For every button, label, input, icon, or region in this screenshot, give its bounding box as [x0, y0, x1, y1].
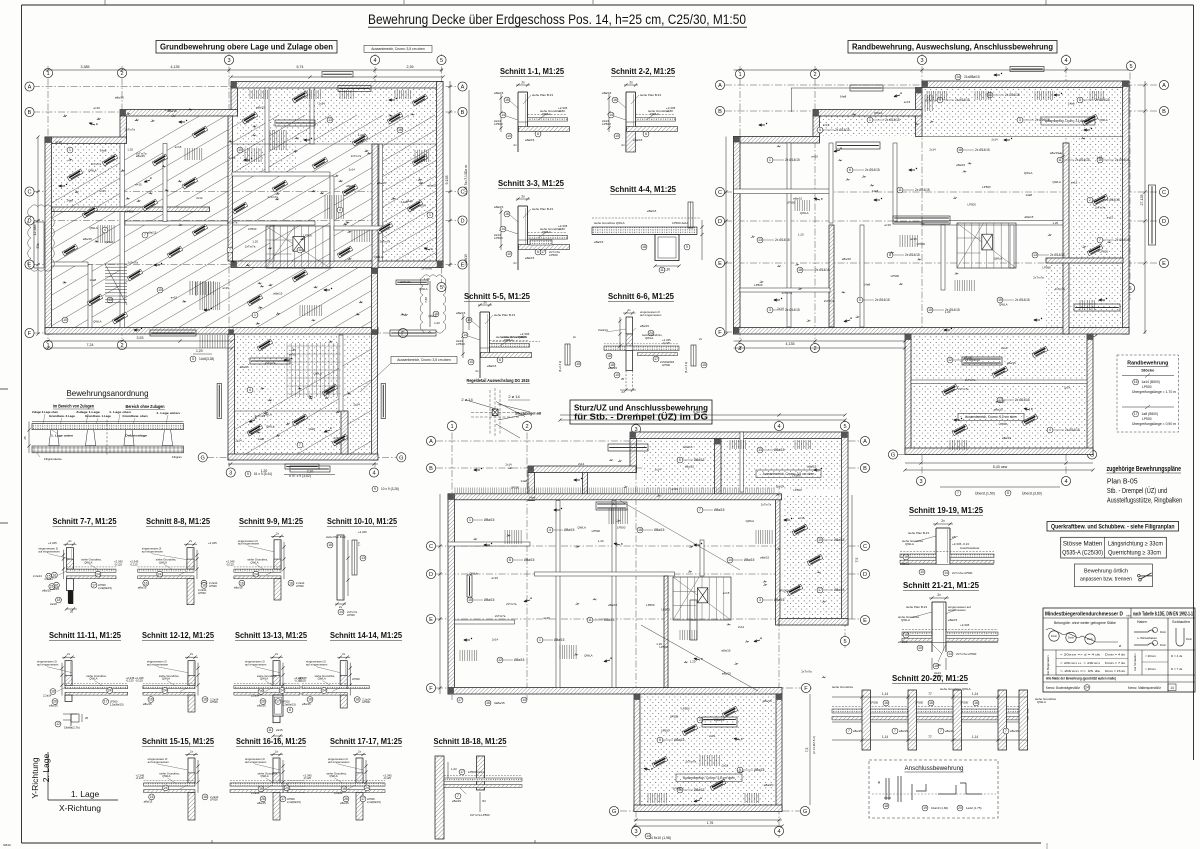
svg-text:auf eingemessen: auf eingemessen — [306, 663, 328, 667]
svg-text:B: B — [461, 110, 465, 116]
svg-text:(6 +0,5 d): (6 +0,5 d) — [558, 361, 562, 372]
svg-text:E: E — [718, 261, 722, 267]
svg-text:16: 16 — [929, 701, 933, 705]
svg-text:2x: 2x — [475, 369, 479, 373]
svg-text:-0,125: -0,125 — [303, 776, 311, 780]
svg-text:LP500: LP500 — [1142, 417, 1152, 421]
svg-text:Q535-A (C25/30): Q535-A (C25/30) — [1062, 549, 1103, 556]
svg-text:2xTm7a: 2xTm7a — [351, 154, 362, 158]
svg-text:-0,125: -0,125 — [383, 776, 391, 780]
svg-text:2xTm7a: 2xTm7a — [421, 266, 432, 270]
svg-text:1,14: 1,14 — [882, 735, 888, 739]
svg-text:1,14: 1,14 — [972, 692, 978, 696]
svg-text:2x14: 2x14 — [492, 638, 499, 642]
svg-text:10: 10 — [615, 134, 619, 138]
svg-text:Ø8a/15: Ø8a/15 — [604, 618, 615, 622]
svg-text:16: 16 — [884, 701, 888, 705]
svg-text:13: 13 — [361, 556, 365, 560]
svg-text:D: D — [1162, 219, 1166, 225]
svg-text:-0,125: -0,125 — [126, 679, 134, 683]
svg-text:ø: ø — [1119, 644, 1121, 648]
section drawing Schnitt 16-16 — [273, 758, 280, 783]
svg-text:14ø8: 14ø8 — [872, 189, 879, 193]
svg-text:7: 7 — [894, 729, 896, 733]
TR lower wing bottom wall — [905, 448, 1093, 455]
svg-text:7: 7 — [957, 491, 959, 495]
svg-text:Plan B-05: Plan B-05 — [1107, 479, 1138, 486]
svg-text:13: 13 — [328, 118, 332, 122]
svg-text:bei Biegehaken: bei Biegehaken — [1046, 655, 1050, 675]
axis letters left TL — [25, 82, 34, 91]
BC arrow marks — [483, 543, 492, 547]
svg-text:LP500: LP500 — [362, 700, 370, 704]
TR interior walls — [787, 143, 791, 327]
svg-text:2,2ø14: 2,2ø14 — [334, 791, 343, 795]
BC circled annotations — [467, 517, 473, 523]
svg-text:14: 14 — [1170, 686, 1174, 690]
svg-text:77: 77 — [928, 692, 932, 696]
svg-text:1,14: 1,14 — [972, 735, 978, 739]
svg-text:14: 14 — [339, 610, 343, 614]
svg-text:ø8a/15: ø8a/15 — [640, 324, 649, 328]
TR main top wall — [734, 137, 820, 144]
svg-text:ø8a/15: ø8a/15 — [340, 801, 349, 805]
svg-text:2xTm7a: 2xTm7a — [125, 128, 136, 132]
svg-text:G: G — [803, 809, 807, 815]
svg-text:20: 20 — [958, 806, 962, 810]
BC Aussenbereich labels — [756, 470, 821, 478]
svg-text:1,20: 1,20 — [945, 310, 951, 314]
TR stair fan — [957, 223, 1016, 268]
svg-text:ø8a/15: ø8a/15 — [42, 589, 51, 593]
svg-text:> 20mm: > 20mm — [1145, 667, 1156, 671]
svg-text:3,385: 3,385 — [81, 65, 90, 69]
svg-text:10 x 9 (3,28): 10 x 9 (3,28) — [381, 487, 399, 491]
Schnitt 5-5 long slab lines — [493, 341, 541, 343]
axis letters right TL — [458, 82, 467, 91]
svg-text:a=15: a=15 — [229, 156, 236, 160]
svg-text:siehe Plan B.23: siehe Plan B.23 — [640, 93, 661, 97]
TR right wall — [1123, 81, 1130, 334]
svg-text:2: 2 — [120, 71, 123, 77]
svg-text:F: F — [28, 331, 32, 337]
axis circles top BC — [447, 421, 456, 430]
svg-text:(6 +0,5 d): (6 +0,5 d) — [684, 362, 688, 373]
note box Querkraftbew — [1047, 522, 1179, 532]
svg-text:ø8a/15: ø8a/15 — [807, 464, 816, 468]
axis circles bottom BC — [631, 826, 640, 835]
svg-text:2,2ø14: 2,2ø14 — [251, 791, 260, 795]
svg-text:Ø8a/15: Ø8a/15 — [744, 558, 755, 562]
svg-text:16: 16 — [486, 701, 490, 705]
svg-text:7: 7 — [229, 248, 231, 252]
svg-text:Betongüte: ohne weiter gebogen: Betongüte: ohne weiter gebogene Stäbe — [1054, 621, 1116, 625]
svg-text:LP500: LP500 — [347, 613, 355, 617]
tick marks TR plan — [968, 162, 972, 164]
svg-text:ø8a/15: ø8a/15 — [842, 257, 851, 261]
svg-text:Grundbew. 1.Lage: Grundbew. 1.Lage — [85, 414, 111, 418]
svg-text:16: 16 — [328, 543, 332, 547]
svg-text:a=15: a=15 — [93, 106, 100, 110]
svg-text:2ø16: 2ø16 — [50, 602, 57, 606]
TR step wall — [813, 110, 922, 117]
svg-text:LP500: LP500 — [592, 529, 601, 533]
svg-text:LP500: LP500 — [787, 200, 796, 204]
svg-text:18: 18 — [57, 598, 61, 602]
Schnitt 8-8 right circle — [201, 583, 207, 589]
svg-text:2x14: 2x14 — [354, 402, 361, 406]
svg-text:LP500: LP500 — [549, 253, 558, 257]
svg-text:Schnitt 10-10, M1:25: Schnitt 10-10, M1:25 — [327, 517, 397, 526]
section drawing Schnitt 5-5 — [456, 301, 532, 379]
svg-text:-0,125: -0,125 — [662, 341, 670, 345]
svg-text:16: 16 — [505, 98, 509, 102]
caption: Randbewehrung, Auswechslung, Anschlussbewehrung — [848, 41, 1057, 54]
svg-text:a=15: a=15 — [289, 352, 296, 356]
svg-text:D: D — [863, 572, 867, 578]
section drawing Schnitt 15-15 — [188, 758, 195, 783]
svg-text:siehe Grundriss QWLA: siehe Grundriss QWLA — [594, 221, 625, 225]
svg-text:ø8a/15: ø8a/15 — [594, 240, 604, 244]
svg-text:ø8a/15: ø8a/15 — [853, 729, 862, 733]
svg-text:2 ø 14: 2 ø 14 — [461, 397, 473, 402]
svg-text:LP500: LP500 — [915, 701, 924, 705]
svg-text:1,20: 1,20 — [127, 148, 133, 152]
svg-text:Regeldetail Auswechslung DG 19: Regeldetail Auswechslung DG 1915 — [467, 378, 531, 383]
svg-text:QWLA: QWLA — [1099, 118, 1108, 122]
svg-text:16: 16 — [298, 248, 302, 252]
TR lower wing left wall — [905, 334, 911, 452]
svg-text:5: 5 — [843, 639, 846, 645]
svg-text:C: C — [863, 544, 867, 550]
svg-text:14: 14 — [956, 75, 960, 79]
table Mindestbiegerollendurchmesser — [1043, 608, 1195, 692]
combs along TR wing top wall — [926, 91, 928, 100]
svg-text:16: 16 — [203, 795, 207, 799]
TL step wall b — [120, 110, 238, 117]
svg-text:QWLA: QWLA — [1024, 171, 1033, 175]
svg-text:12,385: 12,385 — [33, 225, 37, 236]
section drawing Schnitt 8-8 — [187, 548, 194, 569]
svg-text:E: E — [863, 618, 867, 624]
svg-text:Schnitt 9-9, M1:25: Schnitt 9-9, M1:25 — [239, 517, 304, 526]
svg-text:1,76: 1,76 — [707, 821, 714, 825]
svg-text:A: A — [28, 85, 32, 91]
svg-text:10: 10 — [63, 318, 67, 322]
svg-text:1,20: 1,20 — [690, 659, 696, 663]
svg-text:Übergreifungslänge = 1,70 m: Übergreifungslänge = 1,70 m — [1132, 390, 1176, 394]
svg-text:QWLA: QWLA — [577, 526, 586, 530]
svg-text:15: 15 — [576, 362, 580, 366]
TL lower wing left wall — [228, 334, 235, 460]
svg-text:2x14: 2x14 — [349, 168, 356, 172]
svg-text:24: 24 — [280, 689, 284, 693]
svg-text:2x: 2x — [190, 750, 194, 754]
svg-text:2 ø 14: 2 ø 14 — [508, 394, 520, 399]
svg-text:a=15: a=15 — [55, 140, 62, 144]
svg-text:LP500: LP500 — [681, 707, 690, 711]
svg-text:16: 16 — [974, 701, 978, 705]
svg-text:Übergreifungslänge = 0,90 m: Übergreifungslänge = 0,90 m — [1132, 422, 1176, 426]
svg-text:2x Ø14/15: 2x Ø14/15 — [1015, 398, 1030, 402]
svg-text:LP500: LP500 — [494, 122, 503, 126]
fold mark top — [104, 0, 106, 5]
svg-text:2xTm7a: 2xTm7a — [1055, 287, 1066, 291]
svg-text:QWLA: QWLA — [261, 774, 269, 778]
svg-text:13: 13 — [108, 298, 112, 302]
svg-text:2x Ø14/15: 2x Ø14/15 — [785, 308, 800, 312]
box Bewehrung oertlich anpassen with scissors — [1074, 564, 1152, 587]
svg-text:24: 24 — [158, 572, 162, 576]
dark junction blocks at wall crossings — [231, 82, 237, 88]
svg-text:10ø10 (1,60): 10ø10 (1,60) — [931, 806, 948, 810]
svg-text:1: 1 — [539, 638, 541, 642]
svg-text:QWLA: QWLA — [105, 240, 114, 244]
svg-text:2x14: 2x14 — [578, 462, 585, 466]
BC bottom wall — [448, 688, 782, 695]
svg-text:14ø8: 14ø8 — [840, 95, 847, 99]
svg-text:Schnitt 3-3, M1:25: Schnitt 3-3, M1:25 — [498, 179, 565, 188]
tiny circled marks bottom TL wing — [245, 471, 251, 477]
TL tiny circled bar marks — [67, 147, 73, 153]
svg-text:a=15: a=15 — [99, 189, 106, 193]
svg-text:Aussenbereich, Cnom= 3,5 cm ob: Aussenbereich, Cnom= 3,5 cm oben — [371, 47, 425, 51]
svg-text:ø8a/15: ø8a/15 — [494, 91, 504, 95]
svg-text:E: E — [1162, 261, 1166, 267]
svg-text:4: 4 — [339, 208, 341, 212]
svg-text:ø8a/15: ø8a/15 — [996, 400, 1005, 404]
svg-text:A: A — [461, 85, 465, 91]
Regeldetail diagram — [489, 390, 491, 434]
svg-text:14: 14 — [501, 227, 505, 231]
TL diagonal label blobs — [87, 294, 103, 306]
svg-text:2x14: 2x14 — [1001, 346, 1008, 350]
BC stair fan — [673, 577, 731, 620]
svg-text:LP500: LP500 — [1142, 385, 1152, 389]
svg-text:Ø8a/15: Ø8a/15 — [484, 598, 495, 602]
svg-text:33a: 33a — [36, 243, 40, 249]
svg-text:LP500: LP500 — [793, 488, 802, 492]
svg-text:9: 9 — [374, 487, 376, 491]
svg-text:5: 5 — [659, 738, 661, 742]
svg-text:LP500: LP500 — [1100, 249, 1109, 253]
svg-text:3: 3 — [919, 479, 922, 485]
svg-text:2,2ø14: 2,2ø14 — [43, 694, 52, 698]
svg-text:4: 4 — [372, 471, 375, 477]
svg-text:Aussenbereich, Cnom= 3,5 cm ob: Aussenbereich, Cnom= 3,5 cm oben — [683, 776, 735, 780]
svg-text:1: 1 — [46, 71, 49, 77]
svg-text:10: 10 — [818, 538, 822, 542]
svg-text:LP500: LP500 — [511, 485, 520, 489]
TL leader arrow marks — [88, 121, 98, 127]
svg-text:14ø8: 14ø8 — [90, 278, 97, 282]
Anschluss bar figures — [884, 776, 982, 802]
svg-text:(2 14 ØZ.8.2): (2 14 ØZ.8.2) — [812, 736, 816, 754]
svg-text:14: 14 — [522, 698, 526, 702]
svg-text:ø8a/15: ø8a/15 — [302, 702, 311, 706]
svg-text:QWLA: QWLA — [800, 211, 809, 215]
svg-text:LP500: LP500 — [964, 355, 973, 359]
svg-text:LP500: LP500 — [210, 798, 218, 802]
svg-text:2x: 2x — [339, 605, 343, 609]
svg-text:40: 40 — [877, 780, 881, 784]
svg-text:2xTm7a LP500: 2xTm7a LP500 — [952, 571, 973, 575]
BC wing left vertical — [715, 439, 722, 496]
svg-text:ø8a/15: ø8a/15 — [763, 699, 772, 703]
svg-text:2x: 2x — [629, 81, 633, 85]
TL top wall — [231, 82, 443, 89]
svg-text:16: 16 — [355, 698, 359, 702]
svg-text:2x: 2x — [521, 195, 525, 199]
svg-text:LP500: LP500 — [792, 474, 801, 478]
bottom frame ticks — [211, 840, 213, 843]
svg-text:-0,125: -0,125 — [135, 679, 143, 683]
svg-text:10: 10 — [238, 148, 242, 152]
svg-text:-0,125: -0,125 — [114, 562, 122, 566]
svg-text:siehe Grundriss QWLA: siehe Grundriss QWLA — [940, 687, 971, 691]
svg-text:1,23: 1,23 — [451, 767, 457, 771]
svg-text:2xTm7a: 2xTm7a — [136, 151, 147, 155]
BC lower wing bottom wall — [634, 805, 782, 812]
TL right wall — [437, 82, 444, 268]
svg-text:16: 16 — [53, 573, 57, 577]
svg-text:Ø8a/15: Ø8a/15 — [484, 518, 495, 522]
svg-text:ø8a/15: ø8a/15 — [945, 729, 954, 733]
svg-text:30: 30 — [937, 663, 941, 667]
svg-text:2x Ø14/15: 2x Ø14/15 — [835, 128, 850, 132]
axis letters left TR — [715, 80, 724, 89]
svg-text:ø8a/15: ø8a/15 — [294, 274, 303, 278]
TL left stair treads — [105, 263, 127, 265]
BC step vertical a — [630, 439, 637, 473]
svg-text:Schnitt 17-17, M1:25: Schnitt 17-17, M1:25 — [330, 737, 403, 746]
svg-text:Stösse Matten: Stösse Matten — [1063, 540, 1103, 547]
svg-text:2,10: 2,10 — [307, 470, 314, 474]
svg-text:F: F — [804, 686, 808, 692]
svg-text:< 20mm => d = 4 ds: < 20mm => d = 4 ds — [1060, 653, 1101, 657]
svg-text:QWLA: QWLA — [469, 572, 478, 576]
axis G circles TL wing — [198, 453, 207, 462]
TL strip divider wall — [372, 144, 378, 268]
scissors icon — [1137, 571, 1153, 581]
svg-text:A: A — [429, 439, 433, 445]
svg-text:2x: 2x — [275, 750, 279, 754]
svg-text:2xTm7a: 2xTm7a — [334, 436, 345, 440]
svg-text:siehe Plan B.23: siehe Plan B.23 — [532, 207, 553, 211]
svg-text:ø8a/15: ø8a/15 — [377, 181, 386, 185]
sheet frame — [22, 4, 1194, 6]
svg-text:10: 10 — [920, 570, 924, 574]
svg-text:2x: 2x — [937, 593, 941, 597]
svg-text:a=15: a=15 — [904, 100, 911, 104]
svg-text:4: 4 — [777, 829, 780, 835]
BC dimension lines — [560, 414, 845, 416]
svg-text:Dmin: Dmin — [1186, 637, 1193, 641]
svg-text:C: C — [429, 544, 433, 550]
section drawing Schnitt 7-7 — [66, 548, 73, 569]
svg-text:2x: 2x — [621, 390, 625, 394]
svg-text:ø8a/15: ø8a/15 — [793, 196, 802, 200]
svg-text:2xTm7a LP500: 2xTm7a LP500 — [956, 652, 977, 656]
svg-text:LP500: LP500 — [661, 728, 670, 732]
svg-text:Ø8a/15: Ø8a/15 — [674, 738, 685, 742]
svg-text:4,135: 4,135 — [786, 342, 795, 346]
svg-text:QWLA: QWLA — [89, 677, 97, 681]
svg-text:Anschlussbewehrung: Anschlussbewehrung — [905, 765, 964, 772]
svg-text:Überst.(1,50): Überst.(1,50) — [975, 492, 995, 496]
svg-text:15: 15 — [468, 598, 472, 602]
section drawing Schnitt 19-19 — [900, 519, 994, 576]
svg-text:Ø8a/15: Ø8a/15 — [714, 718, 725, 722]
svg-text:QWLA: QWLA — [329, 774, 337, 778]
TL lower wing right wall — [372, 268, 378, 460]
svg-text:Ø8a/15: Ø8a/15 — [754, 768, 765, 772]
svg-text:7,5: 7,5 — [855, 558, 859, 563]
svg-text:ø8a/15: ø8a/15 — [240, 365, 249, 369]
svg-text:13: 13 — [758, 448, 762, 452]
svg-text:auf eingemessen: auf eingemessen — [37, 663, 59, 667]
svg-text:14ø8: 14ø8 — [258, 437, 265, 441]
svg-text:Schnitt 1-1, M1:25: Schnitt 1-1, M1:25 — [500, 67, 565, 76]
TL lower wing bottom wall — [228, 454, 378, 460]
svg-text:16: 16 — [202, 584, 206, 588]
svg-text:1,20: 1,20 — [252, 239, 258, 243]
svg-text:18: 18 — [884, 804, 888, 808]
Schnitt 14-14 right band — [347, 686, 369, 689]
Schnitt 11-11 step detail below — [63, 713, 77, 715]
BC main top wall — [448, 494, 782, 500]
svg-text:2,2ø(8a/15): 2,2ø(8a/15) — [98, 586, 112, 590]
svg-text:+2,345: +2,345 — [358, 530, 367, 534]
TL wing mesh comb — [286, 343, 288, 397]
svg-text:4: 4 — [549, 528, 551, 532]
svg-text:min: min — [1126, 614, 1131, 618]
svg-text:Dmin = 7 ds: Dmin = 7 ds — [1105, 661, 1126, 665]
svg-text:16: 16 — [51, 690, 55, 694]
svg-text:D = 7 ds: D = 7 ds — [1171, 667, 1183, 671]
svg-text:17: 17 — [1134, 412, 1138, 416]
svg-text:ø8a/15: ø8a/15 — [168, 109, 177, 113]
svg-text:Dmin: Dmin — [1051, 634, 1058, 638]
svg-text:Bewehrungsanordnung: Bewehrungsanordnung — [67, 389, 149, 398]
svg-text:16: 16 — [289, 581, 293, 585]
BC strip left wall — [776, 495, 781, 625]
section drawing Schnitt 21-21 — [898, 593, 998, 678]
TR wing top wall — [922, 81, 1129, 88]
svg-text:ø8a/15: ø8a/15 — [525, 256, 535, 260]
svg-text:2xTm7a: 2xTm7a — [255, 414, 266, 418]
svg-text:Ø8a/15: Ø8a/15 — [514, 658, 525, 662]
svg-text:a=15: a=15 — [823, 123, 830, 127]
svg-text:Schnitt 16-16, M1:25: Schnitt 16-16, M1:25 — [236, 737, 306, 746]
svg-text:3ø8a/15: 3ø8a/15 — [494, 701, 505, 705]
svg-text:3: 3 — [1019, 118, 1021, 122]
svg-text:ø8a/15: ø8a/15 — [608, 603, 617, 607]
BC step wall — [528, 466, 636, 473]
svg-text:14ø8: 14ø8 — [66, 199, 73, 203]
svg-text:auf eingemessen: auf eingemessen — [238, 542, 260, 546]
svg-text:2x Ø14/15: 2x Ø14/15 — [885, 118, 900, 122]
svg-text:QWLA: QWLA — [776, 485, 785, 489]
svg-text:LP500: LP500 — [198, 591, 206, 595]
svg-text:14ø8: 14ø8 — [100, 149, 107, 153]
svg-text:2: 2 — [525, 424, 528, 430]
svg-text:LP500: LP500 — [456, 342, 465, 346]
BC wing diag labels — [682, 724, 698, 735]
axis circles top TL — [43, 68, 52, 77]
svg-text:ø8a/15: ø8a/15 — [257, 801, 266, 805]
svg-text:2. Lage: 2. Lage — [41, 754, 51, 783]
